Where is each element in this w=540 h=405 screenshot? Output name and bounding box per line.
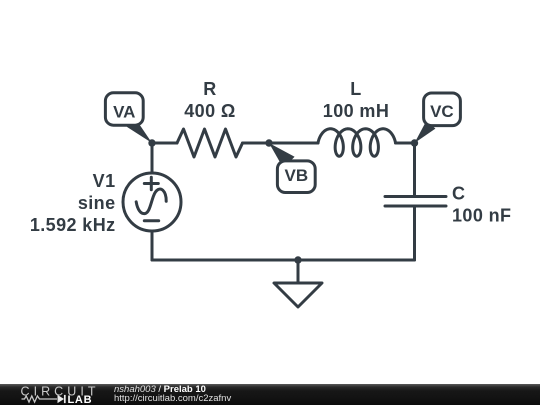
- flag box VA: [105, 93, 143, 125]
- wire resistor to node B: [243, 142, 270, 145]
- ground junction dot: [294, 256, 301, 263]
- wire capacitor to bottom: [413, 206, 416, 260]
- svg-text:100 nF: 100 nF: [452, 206, 511, 226]
- bottom wire: [152, 259, 415, 262]
- V1 sine symbol: [136, 189, 166, 214]
- svg-text:VB: VB: [284, 166, 308, 185]
- capacitor C plates: [385, 195, 446, 198]
- svg-text:1.592 kHz: 1.592 kHz: [30, 215, 116, 235]
- svg-text:VC: VC: [430, 102, 454, 121]
- flag pointer VA: [127, 118, 152, 143]
- ground stem: [297, 260, 300, 283]
- wire node A to resistor: [152, 142, 177, 145]
- flag box VC: [424, 93, 461, 126]
- V1 minus sign: [144, 219, 158, 222]
- flag box VB: [277, 161, 315, 193]
- svg-text:R: R: [203, 79, 216, 99]
- wire node C down to capacitor: [413, 143, 416, 197]
- wire node A down to source V1: [151, 143, 154, 173]
- V1 plus sign: [144, 182, 158, 185]
- node A junction dot: [148, 139, 155, 146]
- node B junction dot: [265, 139, 272, 146]
- flag pointer VC: [415, 120, 436, 143]
- CircuitLab logo: [18, 384, 118, 405]
- wire inductor to node C: [396, 142, 415, 145]
- svg-text:100 mH: 100 mH: [323, 101, 389, 121]
- svg-text:400 Ω: 400 Ω: [184, 101, 235, 121]
- ground triangle: [274, 283, 322, 307]
- footer bar: [0, 384, 540, 405]
- svg-text:sine: sine: [78, 193, 116, 213]
- voltage source V1 circle: [123, 173, 181, 231]
- svg-text:C: C: [452, 184, 465, 204]
- flag pointer VB: [269, 143, 295, 168]
- node C junction dot: [411, 139, 418, 146]
- inductor L: [318, 129, 396, 156]
- svg-text:VA: VA: [113, 102, 135, 121]
- wire node B to inductor: [269, 142, 318, 145]
- footer title text: [114, 385, 206, 395]
- svg-text:V1: V1: [93, 171, 116, 191]
- wire source V1 to bottom wire: [151, 231, 154, 260]
- footer url: [114, 394, 231, 404]
- svg-text:LAB: LAB: [68, 394, 93, 405]
- svg-text:L: L: [350, 79, 361, 99]
- resistor R: [177, 129, 243, 157]
